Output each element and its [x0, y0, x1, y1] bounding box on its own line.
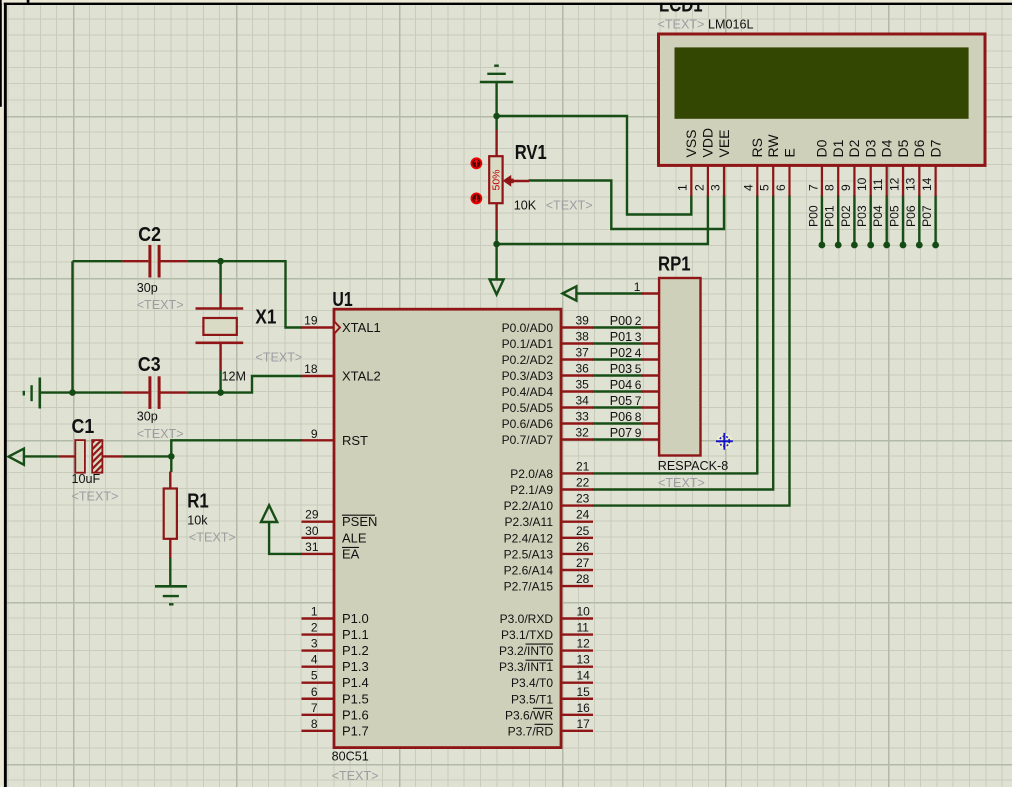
svg-text:R1: R1: [187, 491, 209, 513]
resistor R1 body: [164, 489, 177, 539]
svg-text:P00: P00: [610, 314, 632, 328]
svg-text:P2.3/A11: P2.3/A11: [505, 515, 554, 529]
svg-text:P0.3/AD3: P0.3/AD3: [502, 369, 554, 383]
svg-text:C3: C3: [138, 354, 161, 376]
svg-text:35: 35: [576, 378, 590, 392]
svg-text:14: 14: [577, 669, 591, 683]
svg-text:27: 27: [576, 556, 590, 570]
resistor pack RP1 body: [659, 278, 700, 456]
svg-text:P05: P05: [610, 394, 632, 408]
wire EA terminal to U1 pin 31: [269, 522, 302, 554]
wire P07: U1 pin 32 to RP1 pin 9: [592, 438, 643, 440]
U1 right pin names: [499, 321, 553, 738]
resistor R1 bottom lead: [169, 539, 171, 558]
svg-text:21: 21: [576, 459, 590, 473]
wire P04: U1 pin 35 to RP1 pin 6: [592, 390, 643, 392]
svg-text:19: 19: [304, 314, 318, 328]
wire C3 row: ground to C3 and to X1 node: [41, 391, 123, 393]
svg-text:D3: D3: [863, 139, 879, 157]
svg-text:11: 11: [577, 621, 590, 635]
svg-text:80C51: 80C51: [332, 750, 369, 764]
svg-text:<TEXT>: <TEXT>: [255, 351, 302, 365]
svg-text:14: 14: [920, 177, 934, 191]
svg-text:P1.4: P1.4: [342, 675, 369, 690]
svg-text:D1: D1: [830, 139, 846, 157]
RV1 increment button: [471, 158, 481, 168]
svg-text:P06: P06: [904, 205, 918, 227]
junction RV1 bottom node: [493, 241, 500, 248]
wire P05: U1 pin 34 to RP1 pin 7: [592, 406, 643, 408]
wire D0 terminal: LCD pin 7 to net P00: [821, 195, 823, 245]
wire VDD: RV1 bottom node to LCD pin 2: [497, 195, 708, 244]
wire P2.1 to LCD RW: [592, 195, 773, 489]
ground symbol below R1: [155, 586, 187, 604]
svg-text:P1.3: P1.3: [342, 659, 369, 674]
svg-text:18: 18: [304, 362, 318, 376]
svg-text:P00: P00: [806, 205, 820, 227]
svg-text:U1: U1: [332, 289, 352, 311]
svg-text:10k: 10k: [187, 514, 208, 528]
svg-text:5: 5: [311, 669, 318, 683]
svg-text:P2.6/A14: P2.6/A14: [504, 564, 554, 578]
svg-text:P3.5/T1: P3.5/T1: [511, 692, 553, 706]
svg-text:P04: P04: [610, 378, 632, 392]
svg-text:D4: D4: [879, 139, 895, 157]
svg-text:C2: C2: [138, 224, 161, 246]
terminal dot P06: [916, 242, 923, 249]
svg-text:P2.4/A12: P2.4/A12: [504, 531, 554, 545]
wire D2 terminal: LCD pin 9 to net P02: [853, 195, 855, 245]
svg-text:VEE: VEE: [716, 129, 732, 157]
LCD LCD1 body: [659, 34, 986, 165]
wire RST net: node to U1 pin 9: [171, 440, 302, 456]
svg-text:P1.1: P1.1: [342, 627, 369, 642]
svg-text:30p: 30p: [137, 281, 158, 295]
svg-text:EA: EA: [342, 546, 360, 561]
wire X1 bottom lead: [219, 370, 221, 393]
svg-text:1: 1: [676, 184, 690, 191]
LCD pin numbers 1-14: [676, 177, 934, 191]
svg-text:7: 7: [635, 394, 642, 408]
svg-text:D5: D5: [895, 139, 911, 157]
svg-text:8: 8: [311, 717, 318, 731]
wire P03: U1 pin 36 to RP1 pin 5: [592, 374, 643, 376]
LCD pin stubs 1-14: [691, 166, 935, 196]
svg-text:P03: P03: [855, 205, 869, 227]
svg-text:9: 9: [635, 426, 642, 440]
wire C2 row: left vertical + ends: [73, 260, 123, 262]
svg-text:ALE: ALE: [342, 530, 367, 545]
capacitor C2: [122, 245, 187, 278]
svg-text:P1.0: P1.0: [342, 611, 369, 626]
junction node C2/X1/XTAL1: [217, 258, 224, 265]
svg-text:P07: P07: [610, 426, 632, 440]
svg-text:<TEXT>: <TEXT>: [189, 531, 236, 545]
LCD screen area: [675, 47, 969, 118]
svg-text:<TEXT>: <TEXT>: [332, 769, 379, 783]
svg-text:33: 33: [576, 410, 590, 424]
svg-text:VDD: VDD: [700, 128, 716, 158]
svg-text:38: 38: [576, 330, 590, 344]
svg-text:13: 13: [577, 653, 591, 667]
wire P00: U1 pin 39 to RP1 pin 2: [592, 326, 643, 328]
potentiometer RV1 body: [489, 156, 502, 203]
svg-text:P2.7/A15: P2.7/A15: [504, 580, 554, 594]
svg-text:P2.5/A13: P2.5/A13: [504, 547, 554, 561]
svg-text:6: 6: [635, 378, 642, 392]
terminal dot P02: [851, 242, 858, 249]
svg-text:22: 22: [576, 476, 590, 490]
svg-text:P02: P02: [610, 346, 632, 360]
terminal dot P04: [883, 242, 890, 249]
wire P2.0 to LCD RS: [592, 195, 757, 473]
svg-text:3: 3: [708, 184, 722, 191]
svg-text:39: 39: [576, 314, 590, 328]
svg-text:P2.1/A9: P2.1/A9: [510, 483, 553, 497]
svg-text:P2.0/A8: P2.0/A8: [510, 467, 553, 481]
svg-text:RST: RST: [342, 433, 368, 448]
svg-text:P0.6/AD6: P0.6/AD6: [502, 417, 554, 431]
U1 XTAL1 clock arrow: [335, 322, 340, 333]
potentiometer RV1 bottom lead: [495, 202, 497, 231]
svg-text:P2.2/A10: P2.2/A10: [504, 499, 554, 513]
junction node C3/X1/XTAL2: [217, 389, 224, 396]
RP1 pin 1 stub: [642, 292, 659, 294]
svg-text:P1.6: P1.6: [342, 707, 369, 722]
svg-text:5: 5: [635, 362, 642, 376]
svg-text:P05: P05: [888, 205, 902, 227]
wire D4 terminal: LCD pin 11 to net P04: [886, 195, 888, 245]
svg-text:P01: P01: [823, 205, 837, 227]
svg-text:28: 28: [576, 572, 590, 586]
terminal dot P00: [819, 242, 826, 249]
wire C1 to RST node: [24, 455, 59, 457]
svg-text:RP1: RP1: [658, 254, 691, 276]
svg-text:16: 16: [577, 701, 591, 715]
ground symbol above RV1 (inverted): [480, 66, 513, 82]
wire R1 bottom to ground: [169, 557, 171, 586]
wire D6 terminal: LCD pin 13 to net P06: [918, 195, 920, 245]
svg-text:13: 13: [904, 177, 918, 191]
terminal dot P01: [835, 242, 842, 249]
svg-text:LM016L: LM016L: [708, 18, 754, 32]
junction node ground/C3: [69, 389, 76, 396]
wire RV1 top: ground symbol to node: [495, 82, 497, 130]
U1 right pin numbers: [576, 314, 591, 731]
wire D3 terminal: LCD pin 10 to net P03: [870, 195, 872, 245]
svg-text:1: 1: [311, 605, 318, 619]
terminal dot P07: [932, 242, 939, 249]
potentiometer RV1 top lead: [495, 130, 497, 158]
svg-text:32: 32: [576, 426, 590, 440]
svg-text:5: 5: [758, 184, 772, 191]
svg-text:P03: P03: [610, 362, 632, 376]
terminal dot P03: [867, 242, 874, 249]
wire P2.2 to LCD E: [592, 195, 790, 505]
wire left vertical C2-C3: [71, 261, 73, 392]
wire P06: U1 pin 33 to RP1 pin 8: [592, 422, 643, 424]
svg-text:6: 6: [774, 184, 788, 191]
svg-text:RESPACK-8: RESPACK-8: [658, 459, 728, 473]
capacitor C1 (electrolytic): [59, 440, 123, 473]
U1 right pin stubs: [561, 328, 593, 731]
ground symbol left of C3 (rotated): [24, 378, 40, 409]
svg-text:XTAL2: XTAL2: [342, 369, 381, 384]
svg-text:P1.7: P1.7: [342, 723, 369, 738]
svg-text:P0.5/AD5: P0.5/AD5: [502, 401, 554, 415]
wire D7 terminal: LCD pin 14 to net P07: [934, 195, 936, 245]
svg-text:31: 31: [305, 540, 319, 554]
svg-text:2: 2: [692, 184, 706, 191]
wire D5 terminal: LCD pin 12 to net P05: [902, 195, 904, 245]
terminal arrow left of C1: [9, 449, 24, 465]
svg-text:3: 3: [311, 637, 318, 651]
svg-text:12: 12: [577, 637, 591, 651]
svg-text:36: 36: [576, 362, 590, 376]
svg-text:P3.2/INT0: P3.2/INT0: [499, 644, 553, 658]
crystal X1 body: [196, 294, 244, 371]
svg-text:P3.7/RD: P3.7/RD: [508, 724, 554, 738]
svg-text:4: 4: [311, 653, 318, 667]
resistor R1 top lead: [169, 472, 171, 490]
svg-text:25: 25: [576, 524, 590, 538]
svg-text:26: 26: [576, 540, 590, 554]
svg-text:D0: D0: [814, 139, 830, 157]
svg-text:P3.1/TXD: P3.1/TXD: [501, 628, 553, 642]
svg-text:9: 9: [311, 427, 318, 441]
net labels P00-P07 rotated on D wires: [806, 205, 934, 227]
svg-text:PSEN: PSEN: [342, 514, 377, 529]
svg-text:8: 8: [635, 410, 642, 424]
sheet top margin overlay: [2, 0, 1012, 3]
svg-text:24: 24: [576, 508, 590, 522]
net labels P00-P07 on U1-RP1 wires: [610, 314, 632, 440]
svg-text:37: 37: [576, 346, 590, 360]
wire VEE: RV1 wiper to LCD pin 3: [529, 181, 725, 230]
svg-text:RS: RS: [749, 138, 765, 157]
terminal dot P05: [900, 242, 907, 249]
svg-text:11: 11: [871, 178, 885, 191]
svg-text:P04: P04: [871, 205, 885, 227]
svg-text:8: 8: [823, 184, 837, 191]
junction RST/C1/R1 node: [168, 453, 175, 460]
svg-text:P3.6/WR: P3.6/WR: [505, 708, 553, 722]
svg-text:<TEXT>: <TEXT>: [546, 199, 593, 213]
svg-text:2: 2: [311, 621, 318, 635]
svg-text:P01: P01: [610, 330, 632, 344]
svg-text:15: 15: [577, 685, 591, 699]
power terminal arrow below RV1: [490, 280, 504, 295]
svg-text:P07: P07: [920, 205, 934, 227]
RV1 wiper arrow: [504, 176, 511, 185]
svg-text:34: 34: [576, 394, 590, 408]
svg-text:<TEXT>: <TEXT>: [137, 427, 184, 441]
U1 left pin stubs: [301, 328, 334, 731]
wire XTAL1 net: C2/X1 node to U1 pin 19: [221, 261, 302, 327]
svg-text:12M: 12M: [222, 370, 247, 384]
RP1 pin numbers: [634, 280, 642, 440]
junction RV1 top node: [493, 113, 500, 120]
capacitor C3: [122, 376, 187, 409]
terminal arrow left of RP1 pin 1: [563, 286, 577, 300]
svg-text:X1: X1: [255, 307, 276, 329]
svg-text:D6: D6: [911, 139, 927, 157]
svg-text:P0.4/AD4: P0.4/AD4: [502, 385, 554, 399]
wire P01: U1 pin 38 to RP1 pin 3: [592, 342, 643, 344]
svg-text:7: 7: [806, 184, 820, 191]
origin marker crosshair: [716, 433, 733, 450]
U1 left pin numbers: [304, 314, 319, 731]
svg-text:P3.3/INT1: P3.3/INT1: [499, 660, 553, 674]
svg-text:4: 4: [742, 184, 756, 191]
svg-text:29: 29: [305, 508, 319, 522]
svg-text:P3.0/RXD: P3.0/RXD: [500, 612, 554, 626]
wire P02: U1 pin 37 to RP1 pin 4: [592, 358, 643, 360]
svg-text:10: 10: [577, 605, 591, 619]
wire XTAL2 net: C3/X1 node to U1 pin 18: [221, 376, 303, 393]
wire VSS: ground node to LCD pin 1: [497, 116, 692, 215]
svg-text:50%: 50%: [491, 169, 503, 190]
wire RV1 bottom: node to power arrow: [495, 230, 497, 280]
svg-text:7: 7: [311, 701, 318, 715]
svg-text:D7: D7: [927, 139, 943, 157]
svg-text:1: 1: [634, 280, 641, 294]
svg-text:XTAL1: XTAL1: [342, 320, 381, 335]
svg-text:D2: D2: [846, 139, 862, 157]
svg-text:VSS: VSS: [683, 129, 699, 157]
svg-text:30p: 30p: [137, 410, 158, 424]
wire D1 terminal: LCD pin 8 to net P01: [837, 195, 839, 245]
svg-text:E: E: [781, 148, 797, 157]
svg-text:30: 30: [305, 524, 319, 538]
svg-text:<TEXT>: <TEXT>: [658, 18, 705, 32]
svg-text:RV1: RV1: [515, 142, 547, 164]
svg-text:10K: 10K: [514, 199, 537, 213]
svg-text:P0.1/AD1: P0.1/AD1: [502, 337, 554, 351]
svg-text:P0.7/AD7: P0.7/AD7: [502, 433, 554, 447]
svg-text:10uF: 10uF: [72, 472, 101, 486]
RV1 decrement button: [471, 193, 481, 203]
svg-text:<TEXT>: <TEXT>: [658, 476, 705, 490]
svg-text:23: 23: [576, 492, 590, 506]
svg-text:2: 2: [635, 314, 642, 328]
svg-text:10: 10: [855, 177, 869, 191]
svg-text:P0.0/AD0: P0.0/AD0: [502, 321, 554, 335]
U1 left pin names: [342, 320, 381, 738]
svg-text:9: 9: [839, 184, 853, 191]
svg-text:12: 12: [887, 177, 901, 191]
wire RP1 pin 1 to terminal: [576, 292, 642, 294]
svg-text:P0.2/AD2: P0.2/AD2: [502, 353, 554, 367]
RP1 pin stubs 2-9: [642, 328, 659, 440]
svg-text:<TEXT>: <TEXT>: [72, 490, 119, 504]
svg-text:P3.4/T0: P3.4/T0: [511, 676, 553, 690]
svg-text:P06: P06: [610, 410, 632, 424]
svg-text:C1: C1: [72, 416, 95, 438]
svg-text:P02: P02: [839, 205, 853, 227]
svg-text:4: 4: [635, 346, 642, 360]
wire X1 top lead: [219, 261, 221, 294]
LCD pin names: [683, 128, 943, 158]
terminal arrow up near EA: [261, 505, 277, 522]
wire RST node to R1: [170, 456, 172, 472]
svg-text:6: 6: [311, 685, 318, 699]
svg-text:P1.2: P1.2: [342, 643, 369, 658]
svg-text:<TEXT>: <TEXT>: [137, 298, 184, 312]
op: U1 80C51 microcontroller body: [334, 309, 561, 747]
svg-text:P1.5: P1.5: [342, 691, 369, 706]
svg-text:17: 17: [577, 717, 591, 731]
svg-text:3: 3: [635, 330, 642, 344]
svg-text:RW: RW: [765, 134, 781, 158]
